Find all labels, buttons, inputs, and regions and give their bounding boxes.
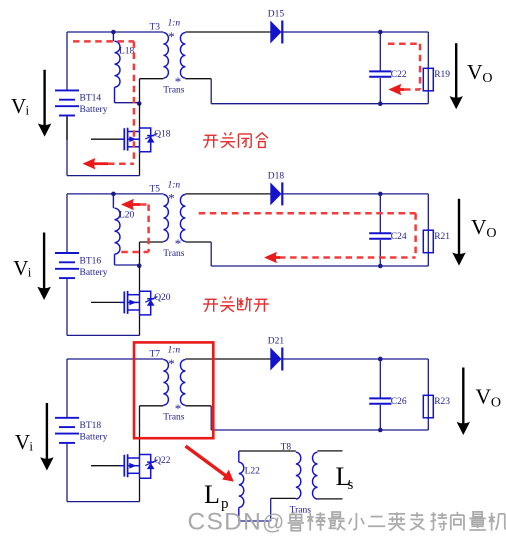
svg-text:1:n: 1:n bbox=[168, 346, 181, 356]
svg-text:*: * bbox=[168, 191, 175, 206]
svg-text:1:n: 1:n bbox=[168, 19, 181, 29]
svg-text:C24: C24 bbox=[391, 232, 407, 242]
svg-text:V: V bbox=[467, 60, 483, 84]
svg-text:BT16: BT16 bbox=[80, 256, 102, 266]
svg-text:Q20: Q20 bbox=[154, 293, 171, 303]
svg-text:C22: C22 bbox=[391, 70, 407, 80]
svg-text:V: V bbox=[476, 384, 492, 408]
svg-text:O: O bbox=[491, 395, 501, 410]
svg-text:D15: D15 bbox=[268, 10, 285, 20]
svg-text:T3: T3 bbox=[150, 22, 161, 32]
svg-text:T5: T5 bbox=[150, 184, 161, 194]
svg-text:R23: R23 bbox=[434, 397, 450, 407]
svg-text:*: * bbox=[175, 401, 182, 416]
svg-text:V: V bbox=[13, 256, 28, 280]
svg-text:V: V bbox=[11, 94, 26, 118]
svg-text:*: * bbox=[168, 356, 175, 371]
svg-text:D18: D18 bbox=[268, 172, 285, 182]
svg-text:*: * bbox=[175, 236, 182, 251]
svg-text:@: @ bbox=[262, 510, 284, 535]
svg-text:Q18: Q18 bbox=[154, 130, 171, 140]
svg-text:T8: T8 bbox=[281, 443, 292, 453]
svg-text:V: V bbox=[15, 430, 30, 454]
svg-text:L20: L20 bbox=[119, 211, 135, 221]
svg-text:L22: L22 bbox=[245, 467, 261, 477]
svg-text:V: V bbox=[471, 215, 487, 239]
svg-text:1:n: 1:n bbox=[168, 180, 181, 190]
svg-text:L18: L18 bbox=[119, 46, 135, 56]
svg-text:D21: D21 bbox=[268, 337, 285, 347]
svg-text:Battery: Battery bbox=[80, 105, 108, 115]
svg-text:i: i bbox=[28, 265, 32, 280]
svg-text:C26: C26 bbox=[391, 397, 407, 407]
svg-text:BT18: BT18 bbox=[80, 421, 102, 431]
svg-text:Battery: Battery bbox=[80, 433, 108, 443]
svg-text:Battery: Battery bbox=[80, 268, 108, 278]
svg-text:R19: R19 bbox=[434, 70, 450, 80]
svg-text:CSDN: CSDN bbox=[188, 509, 263, 536]
svg-text:*: * bbox=[175, 74, 182, 89]
svg-text:BT14: BT14 bbox=[80, 94, 102, 104]
svg-text:O: O bbox=[482, 71, 492, 86]
svg-text:T7: T7 bbox=[150, 349, 161, 359]
svg-text:L: L bbox=[204, 480, 220, 509]
svg-text:i: i bbox=[29, 439, 33, 454]
svg-text:i: i bbox=[26, 103, 30, 118]
svg-text:R21: R21 bbox=[434, 232, 450, 242]
svg-text:O: O bbox=[486, 226, 496, 241]
svg-text:s: s bbox=[348, 477, 354, 493]
svg-text:Q22: Q22 bbox=[154, 456, 171, 466]
svg-text:*: * bbox=[168, 29, 175, 44]
